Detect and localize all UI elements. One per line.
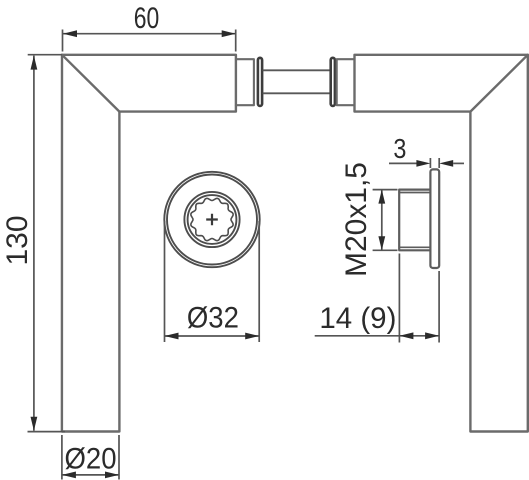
side view threaded neck crest outline bbox=[399, 190, 430, 251]
dimension D32 bbox=[165, 221, 260, 342]
svg-text:130: 130 bbox=[1, 216, 34, 266]
side view thread root lines bbox=[399, 193, 430, 248]
rosette middle circle bbox=[184, 192, 239, 247]
dimension 60 bbox=[63, 30, 236, 52]
right handle miter line bbox=[470, 55, 527, 112]
rosette middle inner circle bbox=[188, 195, 237, 244]
right washer ring bbox=[331, 58, 335, 106]
svg-text:Ø20: Ø20 bbox=[65, 443, 117, 476]
rosette center cross bbox=[206, 214, 218, 226]
rosette front view bbox=[164, 172, 259, 267]
svg-text:60: 60 bbox=[134, 2, 160, 35]
svg-text:M20x1,5: M20x1,5 bbox=[340, 162, 373, 277]
svg-text:3: 3 bbox=[393, 133, 406, 164]
right neck collar bbox=[337, 59, 355, 105]
left handle outline bbox=[62, 55, 236, 432]
left neck collar bbox=[236, 59, 254, 105]
dimension M20x1,5 bbox=[373, 190, 398, 251]
rosette 12-lobe spline bbox=[191, 198, 233, 240]
left handle miter line bbox=[62, 55, 119, 112]
svg-text:Ø32: Ø32 bbox=[187, 302, 239, 335]
right handle outline bbox=[355, 55, 528, 432]
dimension 3 bbox=[389, 158, 464, 168]
dimension 130 bbox=[28, 55, 66, 432]
spindle bbox=[263, 70, 329, 93]
side view rose plate bbox=[399, 169, 439, 268]
rosette outer inner circle bbox=[167, 175, 257, 265]
dimension 14 (9) bbox=[315, 254, 439, 343]
dimension D20 bbox=[62, 435, 119, 480]
rosette outer circle bbox=[164, 172, 259, 267]
svg-text:14 (9): 14 (9) bbox=[319, 302, 396, 335]
left washer ring bbox=[258, 58, 262, 106]
